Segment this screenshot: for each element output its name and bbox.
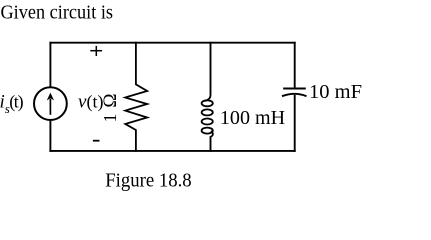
svg-text:Figure 18.8: Figure 18.8 bbox=[105, 170, 192, 192]
label 100 mH bbox=[220, 107, 285, 129]
svg-text:Ω: Ω bbox=[100, 93, 121, 107]
svg-text:10 mF: 10 mF bbox=[309, 81, 362, 103]
inductor L1 loop 2 bbox=[202, 109, 213, 115]
label + (top polarity) bbox=[90, 46, 102, 56]
label 1Ω (rotated) bbox=[100, 93, 121, 122]
wire: bottom rail bbox=[49, 150, 295, 152]
label 10 mF bbox=[309, 81, 362, 103]
wire: right rail upper segment bbox=[294, 42, 296, 88]
resistor R1 (1 ohm) zigzag bbox=[125, 42, 147, 152]
label - (bottom polarity) bbox=[93, 140, 100, 142]
label v(t) bbox=[78, 92, 104, 113]
svg-text:1: 1 bbox=[100, 114, 120, 123]
label i_s(t) bbox=[0, 91, 24, 115]
inductor L1 bottom hook bbox=[211, 131, 213, 137]
inductor L1 wire lower stub bbox=[210, 136, 212, 152]
wire: right rail lower segment bbox=[294, 95, 296, 152]
inductor L1 loop 4 bbox=[202, 128, 213, 134]
svg-text:): ) bbox=[18, 91, 24, 112]
title text "Given circuit is" bbox=[1, 2, 114, 24]
current source I1 circle bbox=[34, 87, 67, 120]
wire: left rail upper segment bbox=[49, 42, 51, 88]
svg-text:100 mH: 100 mH bbox=[220, 107, 285, 129]
svg-text:Given circuit is: Given circuit is bbox=[1, 2, 114, 24]
current source arrow (up) bbox=[47, 93, 54, 115]
inductor L1 wire upper stub bbox=[210, 42, 212, 95]
capacitor C1 top plate bbox=[283, 88, 306, 90]
capacitor C1 curved bottom plate bbox=[282, 94, 307, 96]
inductor L1 loop 3 bbox=[202, 119, 213, 125]
inductor L1 loop 1 bbox=[202, 100, 213, 106]
wire: left rail lower segment bbox=[49, 120, 51, 152]
inductor L1 top hook bbox=[205, 95, 211, 101]
caption "Figure 18.8" bbox=[105, 170, 192, 192]
wire: top rail bbox=[49, 42, 295, 44]
